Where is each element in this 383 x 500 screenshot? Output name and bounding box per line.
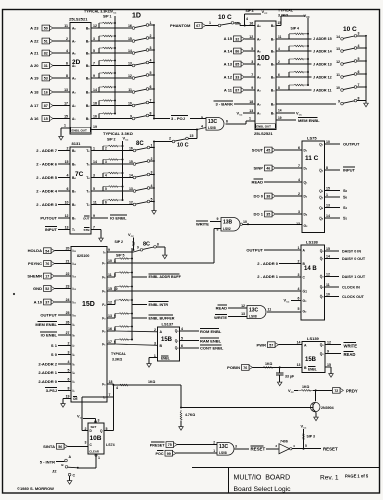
svg-text:10: 10: [128, 101, 132, 105]
svg-text:1KΩ: 1KΩ: [265, 362, 272, 366]
svg-text:MEM ENBL: MEM ENBL: [35, 322, 57, 327]
svg-text:PRDY: PRDY: [346, 388, 358, 393]
svg-text:7406: 7406: [280, 439, 288, 443]
svg-text:13C: 13C: [249, 307, 259, 313]
svg-text:54: 54: [45, 249, 49, 253]
svg-text:15B: 15B: [305, 357, 317, 363]
svg-text:4: 4: [181, 327, 183, 331]
svg-text:OE: OE: [73, 397, 78, 401]
svg-text:SIP 2: SIP 2: [115, 240, 124, 244]
svg-text:DAISY 1 OUT: DAISY 1 OUT: [342, 275, 366, 279]
svg-text:50: 50: [44, 27, 48, 31]
svg-text:SIP 5: SIP 5: [116, 254, 125, 258]
svg-text:37: 37: [45, 301, 49, 305]
svg-text:13B: 13B: [223, 220, 233, 226]
svg-text:32: 32: [235, 37, 239, 41]
svg-text:86: 86: [235, 50, 239, 54]
svg-text:INPUT: INPUT: [45, 227, 58, 232]
svg-text:10: 10: [243, 220, 247, 224]
svg-text:13: 13: [64, 88, 68, 92]
svg-text:SHEMR: SHEMR: [27, 273, 42, 278]
svg-text:2: 2: [150, 34, 152, 38]
svg-text:13C: 13C: [219, 444, 229, 450]
svg-text:READ: READ: [216, 306, 227, 311]
svg-text:6: 6: [105, 201, 107, 205]
svg-text:3: 3: [358, 32, 360, 36]
svg-text:15: 15: [327, 363, 331, 367]
svg-text:19: 19: [278, 116, 282, 120]
svg-text:7: 7: [358, 83, 360, 87]
svg-text:DAISY 0 OUT: DAISY 0 OUT: [342, 257, 366, 261]
svg-text:2N3904: 2N3904: [321, 406, 334, 410]
svg-text:PHANTOM: PHANTOM: [170, 23, 191, 28]
svg-text:9: 9: [338, 100, 340, 104]
svg-text:IO ENBL: IO ENBL: [41, 332, 58, 337]
svg-text:TYPICAL: TYPICAL: [111, 352, 127, 356]
svg-text:75: 75: [168, 443, 172, 447]
svg-text:21: 21: [66, 260, 70, 264]
svg-text:2: 2: [278, 60, 280, 64]
svg-text:TYPICAL 3.3KΩ: TYPICAL 3.3KΩ: [84, 10, 111, 14]
svg-text:9: 9: [93, 214, 95, 218]
svg-text:5: 5: [93, 187, 95, 191]
svg-text:12: 12: [336, 60, 340, 64]
svg-text:ENBL ADDR BUFF: ENBL ADDR BUFF: [149, 275, 182, 279]
svg-text:4: 4: [150, 58, 152, 62]
svg-text:A 17: A 17: [30, 103, 39, 108]
svg-text:2-ADDR 1: 2-ADDR 1: [38, 370, 57, 375]
svg-text:OUTPUT: OUTPUT: [343, 141, 360, 146]
svg-text:85: 85: [235, 63, 239, 67]
svg-text:A 23: A 23: [30, 25, 39, 30]
svg-text:9: 9: [251, 86, 253, 90]
svg-text:8C: 8C: [136, 141, 144, 147]
svg-text:TYPICAL 3.3KΩ: TYPICAL 3.3KΩ: [103, 131, 134, 136]
svg-text:22: 22: [66, 272, 70, 276]
svg-text:12: 12: [108, 301, 112, 305]
svg-text:WRITE: WRITE: [214, 315, 227, 320]
svg-text:13: 13: [336, 47, 340, 51]
svg-text:52: 52: [45, 287, 49, 291]
svg-text:15B: 15B: [161, 337, 173, 343]
svg-text:56: 56: [58, 445, 62, 449]
svg-text:14: 14: [129, 173, 133, 177]
svg-text:5: 5: [305, 444, 307, 448]
svg-text:CC: CC: [299, 115, 303, 117]
svg-text:6: 6: [181, 344, 183, 348]
svg-text:5: 5: [201, 116, 203, 120]
svg-text:A 11: A 11: [224, 87, 233, 92]
svg-text:WRITE: WRITE: [344, 343, 358, 348]
svg-text:3: 3: [68, 351, 70, 355]
svg-text:10B: 10B: [90, 435, 102, 442]
svg-text:LS139: LS139: [307, 336, 320, 341]
svg-text:1: 1: [93, 147, 95, 151]
svg-text:2: 2: [67, 147, 69, 151]
svg-text:CC: CC: [80, 418, 84, 420]
svg-text:1KΩ: 1KΩ: [302, 385, 309, 389]
svg-text:25LS2521: 25LS2521: [254, 131, 273, 136]
svg-text:2-ADDR 0: 2-ADDR 0: [38, 379, 57, 384]
svg-text:4: 4: [151, 184, 153, 188]
svg-text:72: 72: [334, 389, 338, 393]
svg-text:14: 14: [93, 160, 97, 164]
svg-text:1KΩ: 1KΩ: [148, 380, 155, 384]
svg-text:11: 11: [93, 201, 97, 205]
svg-text:5: 5: [68, 369, 70, 373]
svg-text:3: 3: [298, 210, 300, 214]
svg-text:15: 15: [64, 114, 68, 118]
svg-text:SIP 1: SIP 1: [103, 15, 112, 19]
svg-text:A 13: A 13: [224, 61, 233, 66]
svg-text:3: 3: [93, 37, 95, 41]
svg-text:4: 4: [68, 360, 70, 364]
svg-text:10: 10: [108, 259, 112, 263]
svg-text:7: 7: [93, 225, 95, 229]
svg-text:10 C: 10 C: [343, 26, 357, 33]
svg-text:IO ENBL: IO ENBL: [110, 216, 127, 221]
svg-text:J ADDR 13: J ADDR 13: [313, 62, 332, 66]
svg-text:5: 5: [298, 307, 300, 311]
svg-text:16: 16: [249, 22, 253, 26]
svg-text:2 - ADDR 4: 2 - ADDR 4: [36, 188, 58, 193]
svg-text:10 C: 10 C: [177, 143, 189, 149]
svg-text:7: 7: [251, 73, 253, 77]
svg-text:DO 1: DO 1: [254, 211, 264, 216]
svg-text:CC: CC: [264, 13, 268, 15]
svg-text:3.3KΩ: 3.3KΩ: [278, 14, 288, 18]
svg-text:PUTOUT: PUTOUT: [40, 215, 57, 220]
svg-text:2 - ADDR 7: 2 - ADDR 7: [36, 148, 58, 153]
svg-text:87: 87: [235, 89, 239, 93]
svg-text:ROM ENBL: ROM ENBL: [200, 329, 222, 334]
svg-text:5: 5: [358, 57, 360, 61]
svg-text:17: 17: [45, 275, 49, 279]
svg-text:A 19: A 19: [30, 75, 39, 80]
svg-text:A 10: A 10: [34, 299, 43, 304]
svg-text:7: 7: [109, 393, 111, 397]
svg-text:3: 3: [235, 445, 237, 449]
svg-text:2: 2: [298, 260, 300, 264]
svg-text:SIP 3: SIP 3: [307, 435, 316, 439]
svg-text:7C: 7C: [75, 171, 84, 178]
svg-text:TYPICAL: TYPICAL: [278, 9, 294, 13]
svg-text:2 - ADDR 6: 2 - ADDR 6: [36, 161, 58, 166]
svg-text:2: 2: [151, 157, 153, 161]
svg-text:LS08: LS08: [219, 451, 227, 455]
svg-text:15: 15: [278, 21, 282, 25]
svg-text:8: 8: [150, 111, 152, 115]
svg-text:82S100: 82S100: [77, 254, 89, 258]
svg-text:INPUT: INPUT: [343, 168, 356, 173]
svg-text:14: 14: [297, 341, 301, 345]
svg-text:19: 19: [93, 125, 97, 129]
svg-text:57: 57: [269, 343, 273, 347]
svg-text:9: 9: [327, 349, 329, 353]
svg-text:12: 12: [129, 200, 133, 204]
svg-text:RAM ENBL: RAM ENBL: [200, 338, 222, 343]
svg-text:A 12: A 12: [224, 74, 233, 79]
svg-text:3: 3: [298, 273, 300, 277]
svg-text:2: 2: [213, 441, 215, 445]
svg-text:7: 7: [93, 62, 95, 66]
svg-text:2 - ADDR 5: 2 - ADDR 5: [36, 175, 58, 180]
svg-text:J ADDR 11: J ADDR 11: [313, 88, 332, 92]
svg-text:PRESET: PRESET: [150, 443, 166, 447]
svg-text:1D: 1D: [132, 13, 141, 20]
svg-text:8: 8: [68, 387, 70, 391]
svg-text:9: 9: [217, 217, 219, 221]
svg-text:99: 99: [167, 452, 171, 456]
svg-text:6: 6: [278, 73, 280, 77]
svg-text:2 - ADDR 0: 2 - ADDR 0: [257, 261, 279, 266]
svg-text:MULT/IO BOARD: MULT/IO BOARD: [234, 475, 291, 482]
svg-text:18: 18: [93, 102, 97, 106]
svg-text:10: 10: [326, 292, 330, 296]
svg-text:13: 13: [297, 363, 301, 367]
svg-text:CLOCK OUT: CLOCK OUT: [342, 295, 365, 299]
svg-text:6: 6: [66, 61, 68, 65]
svg-text:14 B: 14 B: [304, 266, 317, 272]
svg-text:33 pF: 33 pF: [285, 375, 295, 379]
svg-text:6: 6: [358, 70, 360, 74]
svg-text:23: 23: [66, 285, 70, 289]
svg-text:14: 14: [93, 88, 97, 92]
svg-text:3: 3: [151, 170, 153, 174]
svg-text:LS75: LS75: [307, 136, 317, 141]
svg-text:2-ADDR 2: 2-ADDR 2: [38, 361, 57, 366]
svg-text:51: 51: [44, 40, 48, 44]
svg-text:HOLDA: HOLDA: [28, 248, 42, 253]
svg-text:3: 3: [105, 160, 107, 164]
svg-text:12: 12: [241, 304, 245, 308]
svg-text:1: 1: [326, 193, 328, 197]
svg-text:6: 6: [298, 296, 300, 300]
svg-text:15: 15: [108, 287, 112, 291]
svg-text:15: 15: [129, 160, 133, 164]
svg-text:19: 19: [66, 395, 70, 399]
svg-text:12: 12: [93, 24, 97, 28]
svg-text:A 14: A 14: [224, 48, 233, 53]
svg-text:16: 16: [108, 327, 112, 331]
svg-text:87: 87: [44, 104, 48, 108]
svg-text:4: 4: [298, 287, 300, 291]
svg-text:11: 11: [108, 273, 112, 277]
svg-text:76: 76: [45, 262, 49, 266]
svg-text:27: 27: [66, 331, 70, 335]
svg-text:A 21: A 21: [30, 50, 39, 55]
svg-text:RESET: RESET: [323, 447, 338, 452]
svg-text:3: 3: [85, 440, 87, 444]
svg-text:1: 1: [151, 143, 153, 147]
svg-text:6: 6: [226, 119, 228, 123]
svg-text:©1980 S. MORROW: ©1980 S. MORROW: [17, 486, 54, 491]
svg-text:13: 13: [108, 314, 112, 318]
svg-text:8: 8: [157, 243, 159, 247]
svg-text:6: 6: [150, 85, 152, 89]
svg-text:2 - ADDR 3: 2 - ADDR 3: [36, 202, 58, 207]
svg-text:5: 5: [150, 71, 152, 75]
svg-text:POC: POC: [156, 452, 164, 456]
svg-text:8131: 8131: [72, 141, 82, 146]
svg-text:LS74: LS74: [106, 443, 115, 447]
svg-text:4: 4: [358, 44, 360, 48]
svg-text:45: 45: [266, 149, 270, 153]
svg-text:5: 5: [105, 187, 107, 191]
svg-text:3 - POJ: 3 - POJ: [171, 116, 185, 121]
svg-text:46: 46: [266, 167, 270, 171]
svg-text:LS02: LS02: [223, 227, 231, 231]
svg-text:SOUT: SOUT: [252, 147, 264, 152]
svg-text:CC: CC: [113, 13, 117, 15]
svg-text:ENBL: ENBL: [161, 357, 170, 361]
svg-text:SIP 2: SIP 2: [107, 138, 116, 142]
svg-text:6: 6: [68, 378, 70, 382]
svg-text:16: 16: [129, 146, 133, 150]
svg-text:26: 26: [66, 321, 70, 325]
svg-text:35: 35: [266, 213, 270, 217]
svg-text:GND: GND: [33, 286, 42, 291]
svg-text:4: 4: [298, 178, 300, 182]
svg-text:11: 11: [268, 307, 272, 311]
svg-text:31: 31: [44, 64, 48, 68]
svg-text:2: 2: [66, 37, 68, 41]
svg-text:SINTA: SINTA: [43, 444, 55, 449]
svg-text:38: 38: [266, 195, 270, 199]
svg-text:STB: STB: [84, 228, 91, 232]
svg-text:READ: READ: [344, 352, 356, 357]
svg-text:13C: 13C: [208, 119, 218, 125]
svg-text:5 - INTR: 5 - INTR: [40, 459, 55, 464]
svg-text:ENBL BUFFER: ENBL BUFFER: [149, 316, 175, 320]
svg-text:3: 3: [251, 60, 253, 64]
svg-text:2: 2: [169, 137, 171, 141]
svg-text:12: 12: [326, 272, 330, 276]
svg-text:15: 15: [65, 160, 69, 164]
svg-text:1: 1: [64, 124, 66, 128]
svg-text:25: 25: [66, 311, 70, 315]
svg-text:5: 5: [106, 427, 108, 431]
svg-text:13: 13: [128, 61, 132, 65]
svg-text:LS08: LS08: [249, 314, 257, 318]
svg-text:1: 1: [98, 456, 100, 460]
svg-text:6: 6: [67, 187, 69, 191]
svg-text:9: 9: [130, 114, 132, 118]
svg-text:PSYNC: PSYNC: [28, 261, 42, 266]
svg-text:4: 4: [116, 386, 118, 390]
svg-text:3 - BANK: 3 - BANK: [215, 102, 233, 107]
svg-text:14: 14: [128, 49, 132, 53]
svg-text:J ADDR 15: J ADDR 15: [313, 37, 332, 41]
svg-text:12: 12: [65, 214, 69, 218]
svg-text:1: 1: [249, 117, 251, 121]
svg-text:13: 13: [326, 204, 330, 208]
svg-text:11 C: 11 C: [305, 155, 319, 162]
svg-text:12: 12: [128, 74, 132, 78]
svg-text:20: 20: [66, 247, 70, 251]
svg-text:6: 6: [298, 146, 300, 150]
svg-text:CC: CC: [125, 140, 129, 142]
svg-text:76: 76: [243, 366, 247, 370]
svg-text:17: 17: [108, 340, 112, 344]
svg-text:16: 16: [128, 24, 132, 28]
svg-text:ENBL OUT: ENBL OUT: [256, 125, 271, 129]
svg-text:10: 10: [326, 140, 330, 144]
svg-text:13: 13: [249, 109, 253, 113]
svg-text:2: 2: [298, 192, 300, 196]
svg-text:9: 9: [93, 74, 95, 78]
svg-text:4.7KΩ: 4.7KΩ: [185, 413, 195, 417]
svg-text:9: 9: [108, 248, 110, 252]
svg-text:3: 3: [150, 46, 152, 50]
svg-text:LS137: LS137: [162, 322, 175, 327]
svg-text:3: 3: [154, 341, 156, 345]
svg-text:33: 33: [235, 76, 239, 80]
svg-text:CC: CC: [306, 17, 310, 19]
svg-text:15: 15: [128, 37, 132, 41]
svg-text:12: 12: [327, 340, 331, 344]
svg-text:PAGE 1 of 5: PAGE 1 of 5: [345, 474, 369, 479]
svg-text:16: 16: [44, 91, 48, 95]
svg-text:14: 14: [326, 214, 330, 218]
svg-text:10 C: 10 C: [218, 14, 232, 21]
svg-text:13: 13: [296, 222, 300, 226]
svg-text:14: 14: [326, 255, 330, 259]
svg-text:SIP 4: SIP 4: [291, 27, 300, 31]
svg-text:15D: 15D: [82, 301, 95, 308]
svg-text:ENBL INTR: ENBL INTR: [149, 303, 169, 307]
svg-text:SINP: SINP: [254, 165, 264, 170]
svg-text:S 1: S 1: [51, 343, 58, 348]
svg-text:ENBL: ENBL: [308, 367, 317, 371]
svg-text:MEM ENBL: MEM ENBL: [298, 118, 320, 123]
svg-text:5: 5: [181, 337, 183, 341]
svg-text:A 22: A 22: [30, 38, 39, 43]
svg-text:4: 4: [66, 49, 68, 53]
svg-text:8: 8: [278, 86, 280, 90]
svg-text:67: 67: [196, 24, 200, 28]
svg-text:J ADDR 12: J ADDR 12: [313, 75, 332, 79]
svg-text:5: 5: [151, 197, 153, 201]
svg-text:15: 15: [326, 187, 330, 191]
svg-text:13: 13: [241, 312, 245, 316]
svg-text:15: 15: [190, 134, 194, 138]
svg-text:3.3KΩ: 3.3KΩ: [112, 358, 122, 362]
svg-text:POBIN: POBIN: [227, 365, 240, 370]
svg-text:11: 11: [128, 88, 132, 92]
svg-text:A 18: A 18: [30, 89, 39, 94]
svg-text:A 15: A 15: [224, 36, 233, 41]
svg-text:A 16: A 16: [30, 116, 39, 121]
svg-text:1: 1: [213, 449, 215, 453]
svg-text:Rev. 1: Rev. 1: [320, 475, 339, 482]
svg-text:2: 2: [154, 328, 156, 332]
svg-text:3-PSJ: 3-PSJ: [46, 388, 57, 393]
svg-text:2: 2: [105, 147, 107, 151]
svg-text:CONT ENBL: CONT ENBL: [200, 346, 224, 351]
svg-text:Board Select Logic: Board Select Logic: [234, 486, 292, 493]
svg-text:10D: 10D: [257, 55, 270, 62]
svg-text:CC: CC: [291, 392, 295, 394]
svg-text:2: 2: [85, 427, 87, 431]
svg-text:3: 3: [93, 174, 95, 178]
svg-text:15: 15: [44, 117, 48, 121]
svg-text:14: 14: [336, 35, 340, 39]
svg-text:SIP 4: SIP 4: [246, 9, 254, 13]
svg-text:2 - ADDR 1: 2 - ADDR 1: [257, 274, 279, 279]
svg-text:OUT: OUT: [83, 216, 90, 220]
svg-text:CC: CC: [286, 302, 290, 304]
